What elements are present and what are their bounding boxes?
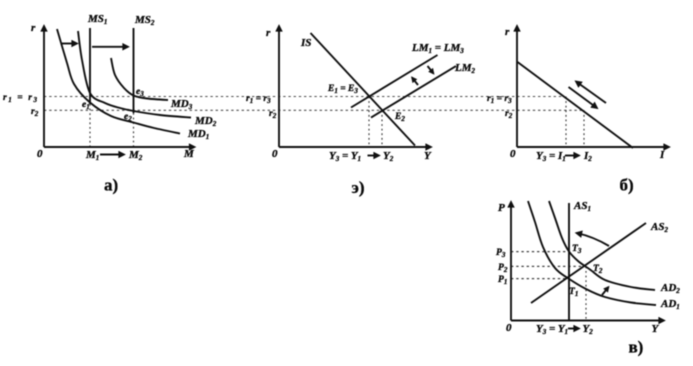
svg-text:e3: e3 [136,87,144,98]
svg-text:P: P [498,202,505,214]
svg-text:MS1: MS1 [87,13,107,26]
svg-text:б): б) [620,176,634,195]
svg-text:0: 0 [510,148,516,160]
svg-text:I2: I2 [583,150,592,163]
svg-text:M1: M1 [85,149,99,162]
svg-text:Y: Y [424,150,432,162]
svg-text:T2: T2 [593,264,603,275]
svg-text:e2: e2 [124,112,132,123]
svg-text:AD2: AD2 [660,282,680,295]
svg-text:P2: P2 [498,263,508,274]
svg-text:MS2: MS2 [134,14,155,27]
svg-text:AS1: AS1 [573,200,591,213]
svg-text:r1 = r3: r1 = r3 [246,94,271,105]
svg-text:E1 = E3: E1 = E3 [327,84,358,95]
svg-text:r: r [266,27,271,39]
svg-text:MD3: MD3 [170,98,193,111]
svg-text:0: 0 [272,148,278,160]
svg-text:Y3 = Y1: Y3 = Y1 [329,150,361,163]
svg-text:I: I [659,149,665,161]
svg-text:MD1: MD1 [187,128,209,141]
svg-text:AS2: AS2 [650,221,668,234]
svg-text:Y3 = I1: Y3 = I1 [536,150,566,163]
svg-text:T3: T3 [572,244,582,255]
svg-text:P3: P3 [496,248,506,259]
svg-text:r: r [505,26,510,38]
svg-text:Y3 = Y1: Y3 = Y1 [536,323,568,336]
svg-text:Y2: Y2 [383,150,394,163]
svg-text:0: 0 [506,322,512,334]
svg-text:а): а) [104,176,118,195]
svg-text:E2: E2 [394,112,405,123]
svg-text:в): в) [629,338,644,357]
svg-text:э): э) [352,178,365,197]
svg-text:LM1 = LM3: LM1 = LM3 [411,42,464,55]
svg-text:r1 = r3: r1 = r3 [3,93,38,104]
svg-text:0: 0 [37,148,43,160]
svg-text:r2: r2 [31,107,39,118]
svg-text:P1: P1 [498,275,507,286]
svg-text:AD1: AD1 [660,298,680,311]
svg-text:MD2: MD2 [194,115,217,128]
svg-text:r: r [31,22,36,34]
svg-text:T1: T1 [569,287,578,298]
svg-text:M: M [183,148,195,160]
svg-text:M2: M2 [128,149,143,162]
svg-text:IS: IS [300,37,311,49]
svg-text:r1 = r3: r1 = r3 [487,94,512,105]
svg-text:Y2: Y2 [583,323,594,336]
svg-text:LM2: LM2 [454,62,476,75]
svg-text:Y: Y [652,323,660,335]
